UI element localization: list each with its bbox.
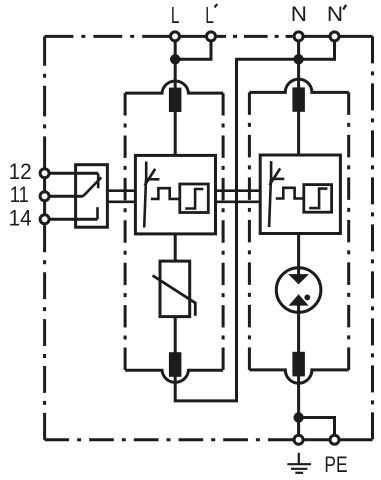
wire L' drop and link to junction: [175, 40, 211, 59]
varistor RV1 diagonal: [153, 276, 196, 316]
wire terminal 14 to contact: [49, 218, 97, 221]
disconnector U1 step line: [151, 188, 180, 199]
svg-text:L: L: [171, 2, 180, 28]
disconnector U2 fixed contact: [270, 161, 273, 179]
terminal N: [294, 32, 303, 41]
svg-text:12: 12: [9, 159, 32, 184]
disconnector U2 contact tick: [271, 178, 284, 181]
wire inner box to varistor (left): [174, 234, 177, 261]
terminal L': [207, 32, 216, 41]
terminal 12: [40, 169, 49, 178]
gas discharge tube trigger dot: [304, 295, 310, 301]
terminal N': [330, 32, 339, 41]
fuse F3 top right (filled): [292, 87, 305, 111]
contact 12 stub: [97, 173, 100, 188]
disconnector U1 signal step symbol: [185, 189, 203, 209]
disconnector U1 signal contact box: [180, 184, 209, 213]
disconnector U2 signal step symbol: [309, 189, 327, 209]
wire terminal 11 to switch arm: [49, 195, 83, 198]
terminal 14: [40, 215, 49, 224]
mechanical linkage lower line: [107, 201, 260, 204]
outer frame bottom edge (dash-dot): [292, 438, 373, 441]
svg-text:11: 11: [10, 182, 29, 207]
junction dot at PE: [293, 412, 303, 422]
right module box (dash-dot): [249, 79, 348, 92]
disconnector U1 fixed contact: [145, 162, 148, 180]
disconnector U1 contact tick: [146, 178, 159, 181]
fuse F1 top left (filled): [169, 88, 182, 112]
terminal 11: [40, 192, 49, 201]
switch arm 11 (changeover): [83, 177, 101, 196]
outer frame left edge (dash-dot): [43, 225, 46, 440]
disconnector U2 switch arm: [269, 179, 271, 227]
wire right module bottom to PE junction and PE terminal: [297, 376, 300, 435]
wire gas discharge tube to bottom fuse (right): [297, 305, 300, 374]
disconnector U2 signal contact box: [304, 185, 332, 213]
disconnector U1 switch arm: [144, 179, 146, 227]
left module box (dash-dot): [125, 81, 223, 93]
terminal PE: [294, 435, 303, 444]
wire N drop to inner box: [297, 40, 300, 155]
svg-text:L: L: [205, 2, 214, 28]
fuse F2 bottom left (filled): [169, 352, 182, 377]
wire inner box to gas discharge tube (right): [297, 233, 300, 275]
junction dot at L: [170, 54, 180, 64]
gas discharge tube lower electrode arrow: [289, 294, 309, 305]
junction dot at N: [293, 54, 303, 64]
wire left module bottom loop to N junction: [175, 59, 298, 401]
fuse F4 bottom right (filled): [292, 352, 305, 377]
outer frame right edge (dash-dot): [371, 36, 374, 439]
wire L drop to inner box: [174, 40, 177, 155]
varistor RV1 body: [160, 261, 190, 317]
svg-text:14: 14: [9, 206, 32, 231]
disconnector U1 actuator slash: [145, 169, 156, 186]
wire PE junction branch to PE' terminal: [299, 418, 335, 436]
remote signalling switch box: [76, 165, 108, 228]
wire N' drop and link to junction: [299, 40, 335, 59]
mechanical linkage upper line: [107, 189, 260, 192]
disconnector box U1 (left): [135, 155, 215, 234]
wire varistor to bottom fuse (left): [174, 317, 177, 374]
disconnector box U2 (right): [260, 155, 340, 234]
terminal L: [171, 32, 180, 41]
wire terminal 12 to contact: [49, 172, 98, 175]
gas discharge tube GDT circle: [276, 268, 321, 313]
disconnector U2 actuator slash: [270, 168, 281, 185]
disconnector U2 step line: [276, 188, 304, 199]
outer frame top edge (dash-dot): [45, 35, 171, 38]
svg-text:N: N: [291, 3, 307, 26]
terminal PE': [330, 435, 339, 444]
ground symbol: [287, 453, 311, 473]
svg-text:N: N: [327, 3, 343, 26]
svg-text:PE: PE: [324, 452, 347, 477]
gas discharge tube upper electrode arrow: [288, 274, 309, 284]
contact 14 stub: [96, 207, 99, 219]
